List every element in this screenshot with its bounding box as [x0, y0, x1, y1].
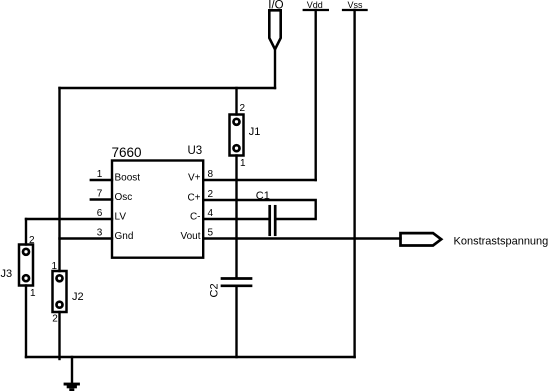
output port Konstrastspannung arrow — [401, 233, 442, 245]
wire Vss to ground rail — [353, 10, 355, 357]
wire C- to C1 left plate — [203, 218, 268, 220]
capacitor C2 — [222, 279, 251, 286]
wire left bus vertical — [58, 88, 60, 271]
svg-text:Vdd: Vdd — [307, 0, 323, 10]
svg-text:U3: U3 — [188, 145, 203, 157]
pin 7 stub Osc — [91, 198, 112, 200]
wire ground stub — [71, 357, 73, 383]
connector J3 — [19, 245, 33, 286]
svg-text:Gnd: Gnd — [115, 231, 134, 242]
wire C2 to ground rail — [235, 287, 237, 357]
svg-text:C2: C2 — [209, 283, 221, 297]
wire V+ to Vdd — [203, 179, 316, 181]
svg-text:2: 2 — [208, 189, 214, 200]
connector J1 — [230, 115, 244, 156]
ground rail — [26, 356, 355, 358]
svg-text:Osc: Osc — [115, 192, 133, 203]
svg-text:1: 1 — [240, 158, 246, 169]
wire J2 to ground rail — [58, 312, 60, 359]
wire bus to J1 — [235, 88, 237, 115]
wire J1 to C2 — [235, 156, 237, 278]
wire Gnd to J2 column — [60, 237, 113, 239]
svg-text:7660: 7660 — [112, 145, 142, 160]
power Vdd bar — [304, 9, 328, 11]
svg-text:7: 7 — [97, 189, 103, 200]
svg-text:4: 4 — [208, 208, 214, 219]
capacitor C1 — [270, 206, 276, 234]
svg-text:2: 2 — [240, 103, 246, 114]
ground — [64, 383, 80, 391]
op-amp U3 IC body — [112, 161, 203, 258]
svg-text:V+: V+ — [188, 172, 201, 183]
wire Vout to output port — [203, 237, 400, 239]
pin 1 stub Boost — [91, 179, 112, 181]
power Vss bar — [343, 9, 367, 11]
svg-text:C+: C+ — [187, 192, 200, 203]
wire Vdd to V+ — [315, 10, 317, 180]
wire C+ loop to C1 right plate — [203, 200, 316, 219]
connector J2 — [53, 271, 67, 312]
svg-text:6: 6 — [97, 208, 103, 219]
wire J3 to ground rail — [25, 286, 27, 358]
svg-text:Konstrastspannung: Konstrastspannung — [454, 235, 549, 247]
port I/O pin symbol — [269, 10, 280, 49]
svg-text:Vss: Vss — [348, 0, 364, 10]
svg-text:1: 1 — [30, 288, 36, 299]
svg-text:5: 5 — [208, 228, 214, 239]
svg-text:C1: C1 — [256, 190, 270, 202]
svg-text:Boost: Boost — [115, 172, 141, 183]
svg-text:J2: J2 — [72, 291, 84, 303]
svg-text:J3: J3 — [1, 268, 13, 280]
wire LV column down to J3 — [25, 219, 27, 245]
svg-text:Vout: Vout — [180, 231, 200, 242]
svg-text:J1: J1 — [249, 126, 261, 138]
svg-text:2: 2 — [52, 313, 58, 324]
wire top bus horizontal — [60, 87, 276, 89]
svg-text:3: 3 — [97, 228, 103, 239]
svg-text:LV: LV — [115, 211, 127, 222]
wire I/O pin down — [274, 50, 276, 88]
svg-text:1: 1 — [97, 169, 103, 180]
svg-text:C-: C- — [190, 211, 201, 222]
wire LV to J3 column — [26, 218, 112, 220]
svg-text:8: 8 — [208, 169, 214, 180]
